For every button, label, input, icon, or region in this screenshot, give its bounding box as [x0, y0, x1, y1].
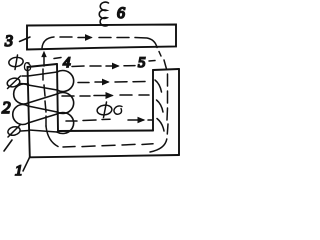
- svg-text:2: 2: [2, 98, 11, 117]
- svg-text:1: 1: [15, 163, 23, 179]
- svg-text:3: 3: [4, 33, 13, 50]
- svg-text:4: 4: [63, 55, 71, 71]
- svg-text:6: 6: [117, 5, 125, 22]
- svg-text:5: 5: [138, 55, 146, 71]
